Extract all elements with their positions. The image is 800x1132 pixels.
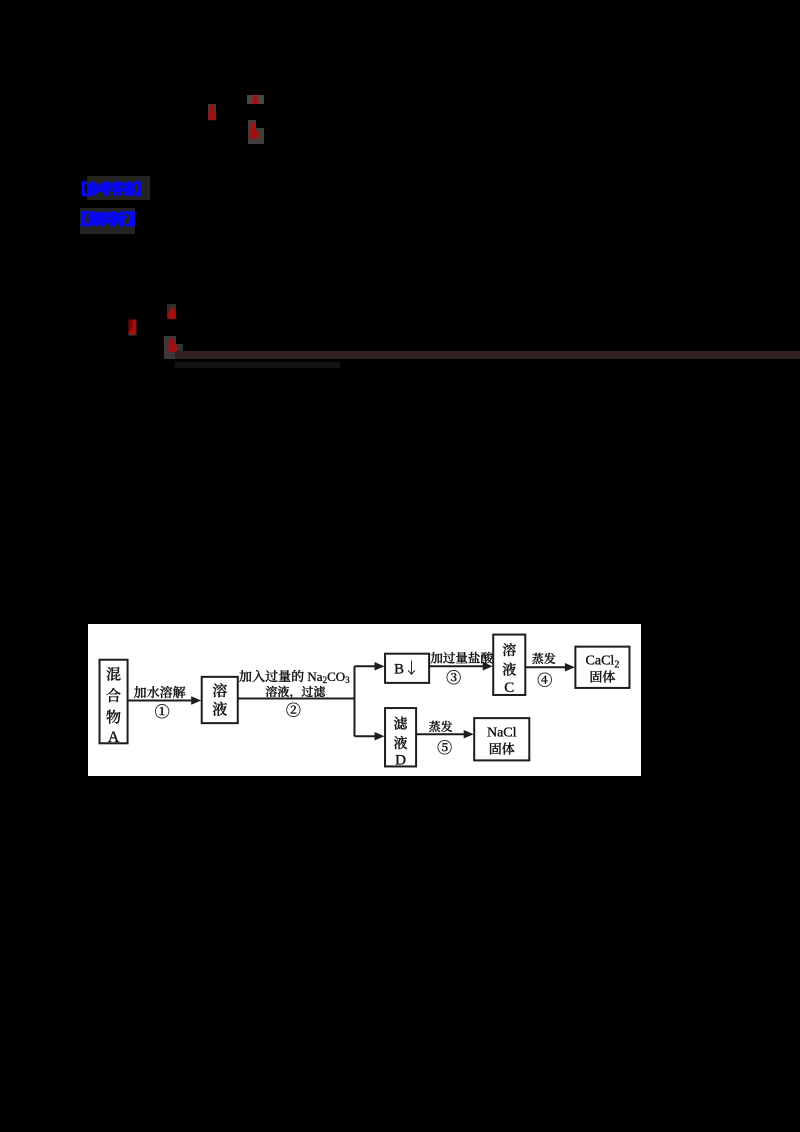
arrow 1 shaft [128, 700, 193, 702]
main line from 溶液 [238, 697, 354, 699]
box B [385, 654, 429, 683]
box 溶液 [202, 677, 238, 723]
svg-text:固体: 固体 [489, 738, 515, 757]
svg-text:加水溶解: 加水溶解 [134, 682, 186, 701]
formula placeholder F1a: gray box [208, 104, 216, 120]
formula placeholder F1b: gray box [247, 95, 264, 104]
arrow 3 shaft [430, 665, 485, 667]
arrow 4 shaft [526, 666, 567, 668]
arrow 5 shaft [417, 733, 466, 735]
box 滤液D [385, 708, 416, 766]
box 溶液C [493, 635, 525, 695]
answer link line 2 backing [80, 208, 135, 234]
answer link line 1 backing [87, 176, 150, 200]
formula placeholder F2b: gray box [167, 304, 176, 319]
svg-text:B↓: B↓ [394, 657, 419, 678]
svg-text:加过量盐酸: 加过量盐酸 [430, 649, 493, 667]
svg-text:③: ③ [446, 667, 461, 688]
svg-text:滤: 滤 [394, 714, 409, 734]
svg-text:液: 液 [212, 699, 227, 720]
formula placeholder F2c: red flask [168, 339, 178, 353]
answer link line 2 blue text [71, 212, 145, 227]
branch vertical [353, 666, 355, 736]
svg-text:混: 混 [106, 663, 121, 684]
svg-text:①: ① [155, 701, 170, 722]
formula placeholder F2c: gray column [164, 336, 176, 359]
svg-text:C: C [504, 676, 514, 697]
svg-text:合: 合 [106, 685, 121, 706]
svg-text:A: A [108, 724, 120, 747]
arrowhead upper branch [375, 662, 385, 670]
arrowhead 1 [191, 696, 201, 704]
answer link line 1 blue text [75, 182, 148, 197]
arrowhead 4 [565, 663, 575, 671]
box NaCl 固体 [474, 718, 529, 760]
svg-text:固体: 固体 [589, 666, 615, 685]
formula placeholder F1a: red flask glyph [208, 104, 217, 121]
formula placeholder F2b: red mark [167, 308, 177, 319]
svg-text:④: ④ [537, 669, 552, 690]
white flowchart panel [88, 624, 641, 776]
svg-text:溶: 溶 [502, 640, 516, 660]
formula placeholder F2c: gray step [176, 344, 183, 352]
svg-text:D: D [395, 748, 406, 769]
lower branch shaft [354, 735, 376, 737]
formula placeholder F1b: red mark [252, 95, 259, 104]
svg-text:⑤: ⑤ [437, 737, 452, 758]
arrowhead lower branch [375, 732, 385, 740]
faint gray band under divider [175, 362, 340, 368]
formula placeholder F1c: gray L box [248, 120, 264, 144]
svg-text:蒸发: 蒸发 [532, 650, 556, 667]
arrowhead 5 [464, 730, 474, 738]
formula placeholder F1c: red flask [250, 122, 260, 139]
maroon divider band [175, 351, 800, 359]
svg-text:溶液，过滤: 溶液，过滤 [265, 683, 326, 700]
box A 混合物A [100, 660, 128, 744]
arrowhead 3 [483, 662, 493, 670]
svg-text:②: ② [286, 700, 301, 721]
formula placeholder F2a: red mark [128, 319, 138, 337]
box CaCl2 固体 [575, 647, 629, 688]
upper branch shaft [354, 665, 376, 667]
svg-text:蒸发: 蒸发 [429, 718, 453, 735]
